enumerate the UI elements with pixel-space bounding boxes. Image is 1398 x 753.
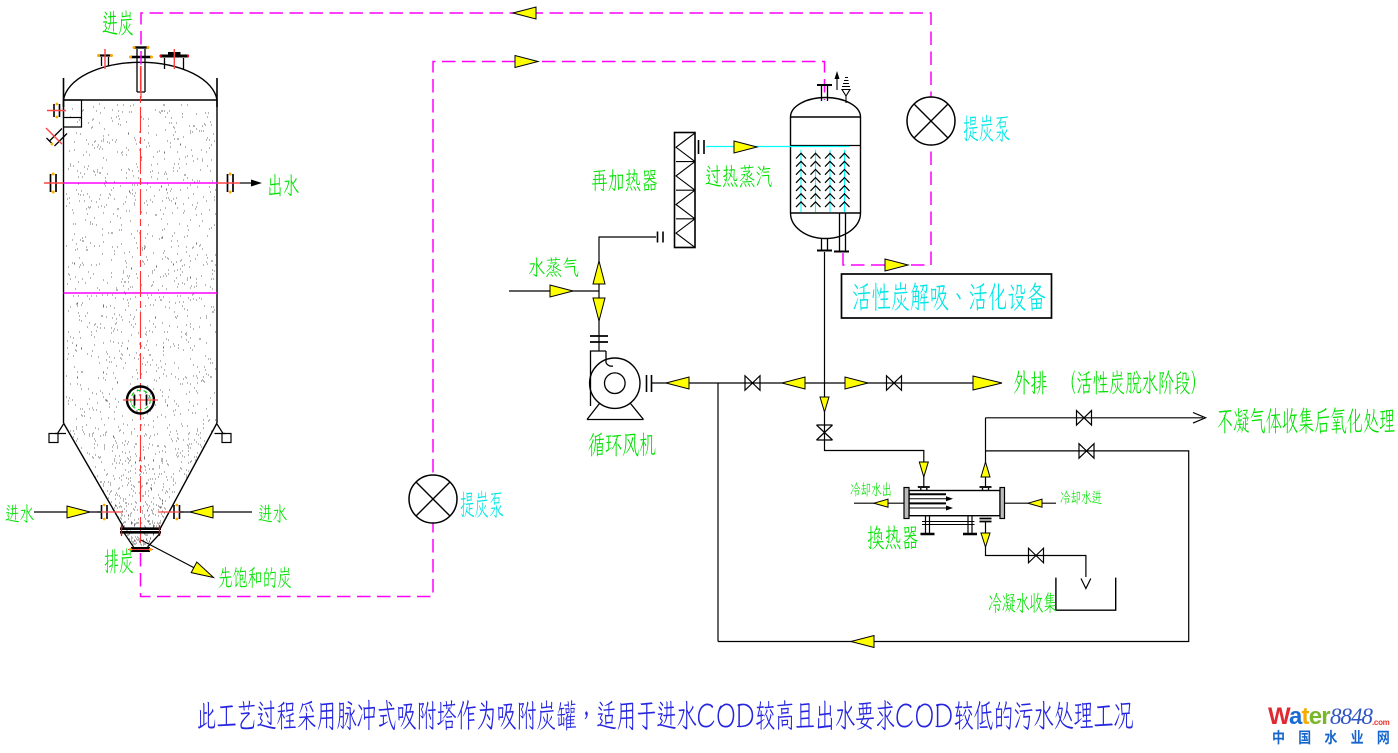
manhole	[127, 387, 154, 414]
magenta level line 2	[64, 292, 218, 294]
vessel shell	[791, 117, 861, 213]
vessel top nozzle (carbon in)	[822, 86, 828, 101]
gas riser	[985, 418, 987, 488]
label desorption equipment box	[853, 282, 1045, 311]
fan inlet flange	[590, 336, 608, 342]
label pai-tan (carbon discharge)	[105, 548, 133, 573]
condensate valve V4	[1029, 548, 1044, 563]
cooling water out pipe	[854, 502, 904, 504]
label chu-shui (water out)	[269, 174, 299, 196]
vessel bottom dome	[791, 213, 861, 239]
water inlet right pipe + arrow	[180, 511, 252, 513]
dome nozzle N2 (centre carbon inlet pipe)	[137, 49, 145, 92]
gas line 1 to oxidation	[986, 417, 1204, 419]
carbon pump P2	[409, 475, 457, 523]
packing cyan distributor lines	[801, 150, 845, 212]
label non-condensable gas	[1218, 407, 1395, 434]
label dewatering stage	[1072, 370, 1195, 394]
water inlet left pipe + arrow	[34, 511, 101, 513]
vessel bottom nozzle 2 (carbon out)	[840, 213, 846, 251]
valve V1	[745, 376, 760, 391]
valve V2	[887, 376, 902, 391]
carbon pump P1	[907, 97, 955, 145]
right head	[1000, 488, 1005, 519]
circulating fan B1	[587, 351, 652, 420]
down arrow to fan	[593, 298, 605, 321]
tube bundle	[909, 494, 946, 503]
regenerator vessel U1 (activated carbon desorption/activation)	[706, 71, 861, 383]
caption process description	[198, 700, 1133, 731]
fan outlet flange	[647, 375, 652, 392]
left head (tube sheet)	[904, 488, 909, 519]
carbon transfer dashed line A (tower bottom, pump P2, regenerator top)	[141, 62, 825, 597]
tower dome edge ticks	[64, 78, 218, 107]
tower dome	[64, 62, 218, 100]
cone bottom flange	[120, 529, 161, 533]
label superheated steam	[706, 165, 772, 188]
label cooling water in	[1061, 490, 1102, 504]
superheated steam cyan feed line	[706, 146, 849, 148]
tower side nozzle (upper left)	[54, 104, 60, 117]
label steam	[529, 257, 578, 277]
red dashed centreline	[140, 66, 142, 551]
svg-text:Water: Water	[1268, 703, 1330, 730]
reheater outlet flange	[699, 140, 705, 154]
reheater inlet flange	[658, 232, 664, 243]
cooling water in pipe	[1005, 502, 1057, 504]
magenta level line 1 (outlet level)	[64, 182, 218, 184]
logo china water website	[1273, 730, 1389, 745]
superheated steam arrow	[734, 141, 757, 153]
HX top nozzle right	[983, 488, 989, 491]
label jin-shui left (water in)	[6, 504, 34, 522]
return riser junction	[717, 383, 719, 642]
tower shell walls	[64, 100, 218, 423]
level-1 right flange	[228, 174, 234, 192]
fan base	[587, 404, 644, 420]
label carbon pump P1	[964, 115, 1010, 142]
condensate tank	[1056, 578, 1116, 611]
label carbon pump P2	[460, 491, 503, 518]
steam pipe to reheater	[599, 237, 656, 351]
discharge sub-cone	[125, 534, 161, 548]
label cooling water out	[851, 482, 891, 496]
level-1 left flange	[51, 174, 57, 192]
pipe from vessel to main header	[824, 252, 826, 383]
label circulating fan	[588, 432, 655, 456]
label jin-tan (carbon in)	[103, 10, 133, 35]
up arrow to reheater	[593, 261, 605, 284]
label reheater	[592, 169, 657, 191]
equipment label box	[842, 274, 1052, 318]
vessel top dome	[791, 98, 861, 118]
adsorption tower T1 (pulse adsorption column)	[34, 46, 262, 578]
dome nozzle N1 (left small)	[102, 57, 109, 66]
packing bed top line	[791, 145, 861, 147]
cone support brackets	[55, 424, 226, 434]
arrow into tank	[1081, 579, 1091, 589]
tower stipple fill (carbon bed dots)	[66, 104, 216, 421]
outlet line + arrow	[240, 182, 253, 184]
discharge flange	[131, 548, 150, 551]
main header pipe	[652, 382, 973, 384]
HX bottom-right nozzle	[980, 519, 992, 522]
saturated carbon arrow	[141, 540, 206, 574]
water inlet nozzle left	[102, 505, 108, 519]
HX legs	[926, 516, 973, 534]
condensate pipe	[986, 556, 1086, 578]
steam inlet pipe	[509, 290, 599, 292]
heat exchanger E2	[904, 487, 1005, 556]
carbon return dashed line B (regenerator bottom, pump P1, tower top)	[141, 13, 931, 265]
label condensate collection	[989, 592, 1057, 613]
reheater E1	[675, 133, 696, 248]
label heat exchanger	[868, 525, 918, 549]
svg-text:.com: .com	[1372, 718, 1390, 727]
gas line 2 return loop	[718, 451, 1189, 642]
vessel vent with relief valve	[836, 75, 838, 90]
tower diagonal nozzle	[47, 129, 68, 147]
HX top nozzle left	[921, 488, 927, 491]
dome nozzle N3 (right, capped)	[165, 58, 184, 70]
tower top-left internal box	[64, 100, 82, 118]
branch pipe to heat exchanger	[825, 383, 924, 488]
discharge arrow	[973, 376, 1002, 390]
packing chevrons	[796, 153, 850, 207]
svg-text:8848: 8848	[1330, 704, 1374, 729]
globe valve V3	[817, 425, 833, 440]
tower cone hopper	[64, 423, 218, 528]
label external discharge	[1014, 370, 1047, 394]
label jin-shui right (water in)	[259, 504, 287, 522]
label first saturated carbon	[219, 567, 291, 589]
vessel bottom nozzle 1 (gas out)	[822, 238, 828, 250]
water inlet nozzle right	[174, 505, 180, 519]
